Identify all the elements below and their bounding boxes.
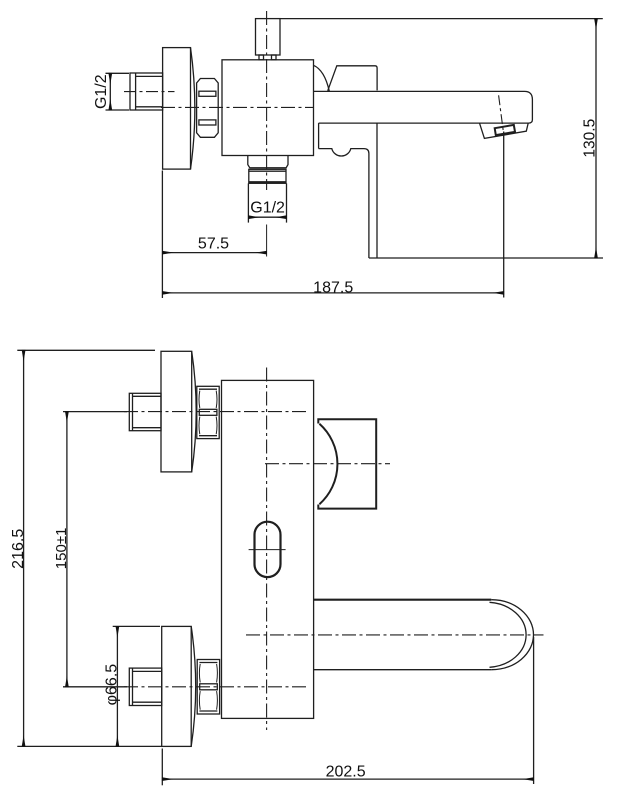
G1/2 dimension (left, wall nipple) xyxy=(106,73,130,110)
spout support bracket (side view) xyxy=(319,123,377,258)
handle centerline xyxy=(265,463,390,465)
svg-text:202.5: 202.5 xyxy=(326,763,366,780)
G1/2 bottom outlet (side view) xyxy=(248,156,288,184)
bottom escutcheon plate (front view) xyxy=(162,626,196,746)
dimension 57.5 xyxy=(162,171,266,299)
dimension 150±1 xyxy=(63,412,127,687)
dimension 187.5 xyxy=(162,132,503,298)
top hex nut (front view) xyxy=(197,386,219,438)
body horizontal centerline xyxy=(161,106,314,108)
svg-text:187.5: 187.5 xyxy=(313,280,353,297)
svg-text:G1/2: G1/2 xyxy=(250,200,285,217)
top wall nipple (front view) xyxy=(129,393,161,430)
nipple centerline xyxy=(124,91,175,93)
dimension φ66.5 xyxy=(113,626,160,746)
G1/2 wall nipple (side view) xyxy=(130,73,163,110)
spout centerline xyxy=(246,634,544,636)
bottom wall nipple (front view) xyxy=(129,668,161,705)
diverter oval xyxy=(255,522,281,577)
dimension 202.5 xyxy=(162,637,533,785)
spout (side view) xyxy=(314,91,533,123)
body vertical centerline (front view) xyxy=(266,368,268,731)
svg-text:216.5: 216.5 xyxy=(10,529,27,569)
cartridge cap knob (side view) xyxy=(256,19,281,60)
aerator screen xyxy=(495,125,515,135)
svg-text:57.5: 57.5 xyxy=(198,235,229,252)
outlet centerline extension xyxy=(266,225,268,257)
body vertical centerline xyxy=(266,11,268,190)
valve body (side view) xyxy=(222,60,314,156)
top connection centerline xyxy=(124,411,308,413)
dimension 216.5 xyxy=(17,350,161,746)
dimension 130.5 xyxy=(280,19,603,258)
bottom hex nut (front view) xyxy=(197,660,219,715)
svg-text:φ66.5: φ66.5 xyxy=(104,664,121,706)
G1/2 outlet dimension xyxy=(248,183,286,222)
svg-text:G1/2: G1/2 xyxy=(93,74,110,109)
wall plate escutcheon (side view) xyxy=(163,48,195,170)
spout (front view) xyxy=(314,600,534,670)
handle (front view) xyxy=(318,419,376,508)
handle lever (side view) xyxy=(314,65,378,91)
bottom connection centerline xyxy=(124,686,308,688)
faucet body (front view) xyxy=(222,380,314,718)
hex nut (side view) xyxy=(197,79,219,138)
aerator housing at spout tip xyxy=(480,123,529,138)
top escutcheon plate (front view) xyxy=(161,351,196,472)
svg-text:130.5: 130.5 xyxy=(581,119,598,158)
svg-text:150±1: 150±1 xyxy=(53,528,70,570)
oval cross tick xyxy=(249,549,286,551)
aerator axis centerline xyxy=(499,95,504,130)
